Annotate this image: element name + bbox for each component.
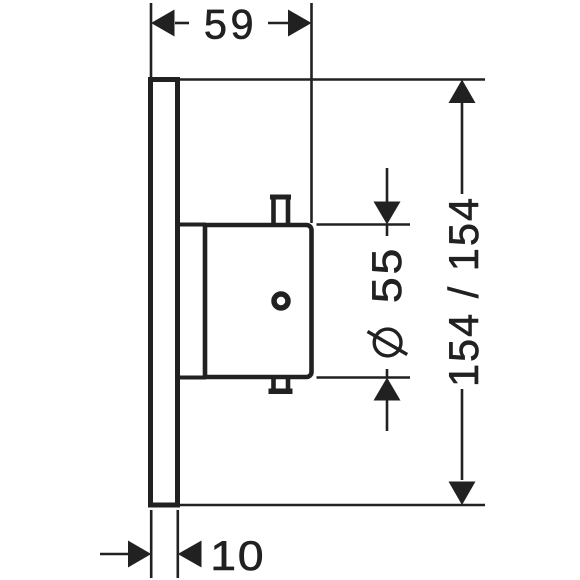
dim 59 arrow left (151, 10, 175, 37)
top knob (271, 197, 276, 225)
dim 154 arrow up (449, 80, 476, 104)
dim 55 ext line bottom (317, 376, 411, 379)
dim 55 arrow down (374, 202, 401, 225)
dim 10 arrow left (178, 541, 202, 568)
dim 154 line lower (461, 389, 464, 480)
diameter symbol (368, 329, 408, 356)
dim 55 tail bottom (386, 401, 389, 432)
dim 55 tick below top tip (386, 225, 389, 237)
dim 59 tail right (268, 22, 288, 25)
dim 10 ext line left (150, 510, 153, 578)
dim 55 arrow up (374, 378, 401, 401)
svg-text:10: 10 (210, 533, 265, 579)
dim 55 ext line top (317, 223, 411, 226)
dim 59 tail left (175, 22, 189, 25)
dim 154 arrow down (449, 482, 476, 506)
bottom knob (271, 377, 276, 391)
dim 59 arrow right (288, 10, 312, 37)
dim 59 ext line right (310, 3, 313, 223)
screw dot (274, 294, 288, 308)
dim 154 line upper (461, 103, 464, 194)
bracket bottom line (177, 376, 206, 380)
wall line top (180, 78, 485, 81)
svg-text:55: 55 (364, 246, 410, 303)
wall line bottom (180, 504, 485, 507)
dim 55 tick above bottom tip (386, 369, 389, 378)
dim 10 arrow right (128, 541, 151, 568)
bracket top line (177, 223, 206, 227)
valve body (205, 225, 312, 377)
dim 10 ext line right (177, 510, 180, 578)
svg-text:154 / 154: 154 / 154 (440, 196, 487, 387)
dim 59 ext line left (150, 3, 153, 77)
dim 55 tail top (386, 168, 389, 202)
dim 10 tail left (100, 553, 129, 556)
svg-text:59: 59 (204, 1, 257, 48)
escutcheon plate (151, 80, 178, 506)
